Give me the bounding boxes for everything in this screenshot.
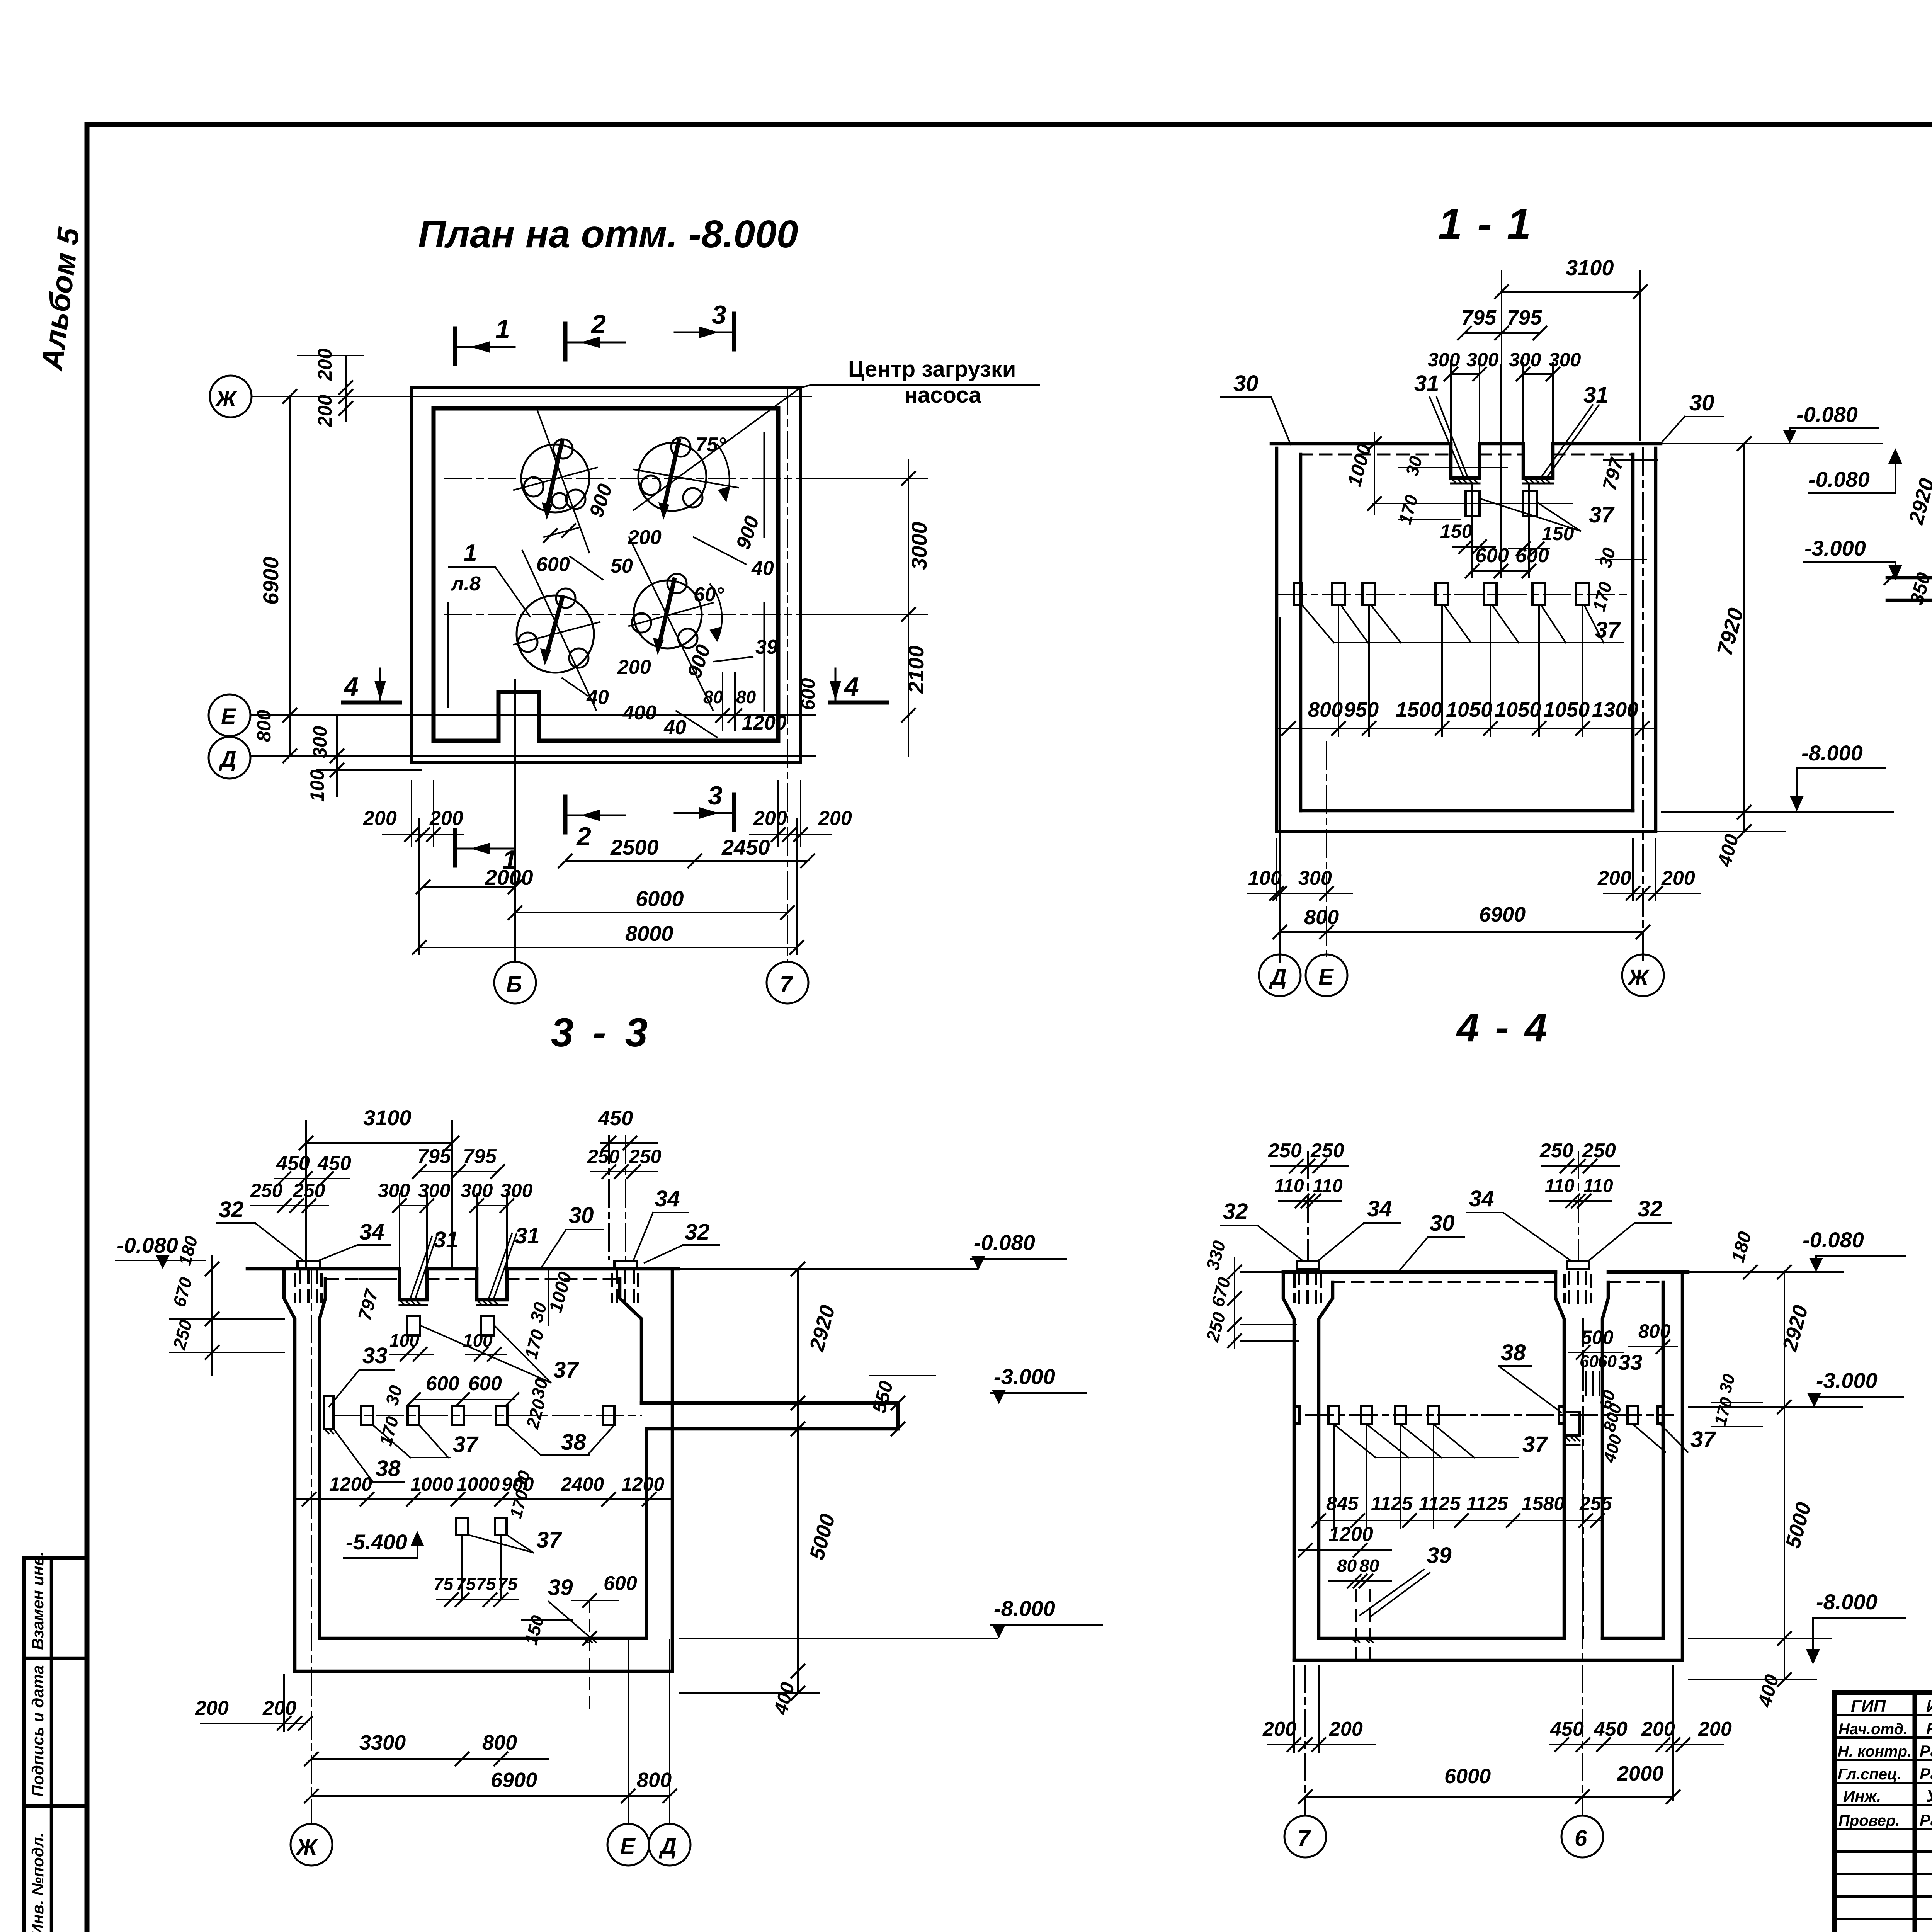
- section mark 1 bottom: [453, 830, 457, 866]
- svg-text:Н. контр.: Н. контр.: [1838, 1743, 1912, 1760]
- svg-text:1200: 1200: [329, 1473, 372, 1495]
- svg-text:75: 75: [476, 1574, 497, 1594]
- svg-text:39: 39: [548, 1575, 573, 1600]
- left dims 300 100: [336, 715, 338, 796]
- svg-text:400: 400: [769, 1680, 799, 1717]
- svg-text:34: 34: [1367, 1196, 1392, 1221]
- top-left dims 200 200: [345, 355, 347, 421]
- svg-text:-3.000: -3.000: [1804, 536, 1866, 560]
- slot leader funnels to 31: [1430, 397, 1464, 479]
- svg-text:200: 200: [314, 348, 336, 381]
- svg-text:7: 7: [1298, 1826, 1311, 1851]
- svg-text:800: 800: [637, 1769, 672, 1792]
- svg-text:Е: Е: [620, 1834, 636, 1859]
- svg-text:6900: 6900: [259, 556, 283, 605]
- svg-text:800: 800: [1638, 1320, 1671, 1342]
- pump cluster D big circle: [634, 580, 702, 648]
- centerline through row: [332, 1415, 641, 1416]
- svg-text:60°: 60°: [694, 583, 724, 606]
- svg-text:250: 250: [1539, 1139, 1573, 1162]
- svg-text:300: 300: [309, 726, 331, 758]
- pump D diagonal: [629, 537, 713, 710]
- svg-text:200: 200: [1597, 867, 1631, 889]
- section mark 3 bottom: [732, 794, 736, 830]
- svg-text:950: 950: [1344, 698, 1379, 721]
- axis circle Е: [607, 1824, 649, 1866]
- svg-text:30: 30: [1233, 371, 1259, 396]
- svg-text:1: 1: [464, 540, 477, 566]
- svg-text:150: 150: [1542, 523, 1574, 544]
- svg-text:4: 4: [343, 672, 359, 701]
- leaders from anchors to 37 line: [1302, 605, 1334, 643]
- 4-4 middle wall flared top: [1556, 1272, 1564, 1638]
- pump A dims: [544, 527, 580, 537]
- axis line Б vertical: [514, 680, 516, 962]
- svg-text:200: 200: [1262, 1718, 1296, 1740]
- svg-text:450: 450: [598, 1107, 633, 1130]
- left wall embedded plate: [324, 1396, 333, 1429]
- svg-text:38: 38: [1501, 1340, 1526, 1365]
- svg-text:39: 39: [1427, 1543, 1452, 1568]
- axis circle Е: [1306, 954, 1347, 996]
- svg-text:Гл.спец.: Гл.спец.: [1838, 1766, 1901, 1783]
- svg-text:-0.080: -0.080: [1803, 1228, 1864, 1252]
- svg-text:3300: 3300: [359, 1731, 406, 1754]
- svg-text:150: 150: [520, 1613, 548, 1647]
- svg-text:30: 30: [1595, 545, 1619, 570]
- svg-text:6900: 6900: [1479, 903, 1526, 926]
- svg-text:75°: 75°: [696, 434, 726, 456]
- top anchor plates: [1297, 1261, 1319, 1269]
- svg-text:л.8: л.8: [450, 573, 481, 595]
- wall inner detail lines: [447, 603, 449, 707]
- left dim 6900: [289, 396, 291, 756]
- svg-text:450: 450: [1594, 1718, 1628, 1740]
- svg-text:75: 75: [434, 1574, 454, 1594]
- svg-text:200: 200: [1698, 1718, 1732, 1740]
- svg-text:795: 795: [463, 1145, 497, 1168]
- bottom center anchor: [589, 1600, 590, 1712]
- svg-text:ГИП: ГИП: [1851, 1697, 1886, 1716]
- svg-text:3 - 3: 3 - 3: [551, 1010, 651, 1055]
- svg-text:План на отм. -8.000: План на отм. -8.000: [418, 213, 798, 256]
- slot leader lines 31: [410, 1236, 432, 1298]
- svg-text:200: 200: [1661, 867, 1695, 889]
- svg-text:1 - 1: 1 - 1: [1438, 200, 1532, 248]
- right vertical dim 7920: [1743, 444, 1745, 832]
- svg-text:300: 300: [1428, 349, 1460, 371]
- svg-text:-8.000: -8.000: [1801, 741, 1863, 765]
- svg-text:550: 550: [868, 1379, 898, 1415]
- svg-text:37: 37: [536, 1527, 562, 1553]
- svg-text:-0.080: -0.080: [117, 1233, 178, 1257]
- svg-text:400: 400: [622, 702, 656, 724]
- svg-text:1200: 1200: [1328, 1523, 1373, 1546]
- svg-text:30: 30: [1401, 454, 1426, 478]
- axis verticals: [311, 1271, 312, 1823]
- svg-text:Рашевский: Рашевский: [1920, 1811, 1932, 1829]
- svg-text:75: 75: [456, 1574, 476, 1594]
- svg-text:300: 300: [1298, 867, 1332, 889]
- svg-text:600: 600: [797, 678, 819, 710]
- axis circle 7: [1284, 1816, 1326, 1857]
- svg-text:-0.080: -0.080: [1808, 467, 1870, 492]
- svg-text:31: 31: [515, 1223, 540, 1248]
- plan outer wall: [412, 388, 801, 762]
- section 1-1 inner walls: [1299, 454, 1303, 811]
- svg-text:38: 38: [561, 1430, 586, 1455]
- axis verticals: [1279, 618, 1281, 962]
- pump A arrow: [547, 440, 562, 510]
- svg-text:Е: Е: [221, 704, 237, 729]
- floor anchor dashed bolts: [1356, 1590, 1370, 1660]
- svg-text:32: 32: [1223, 1199, 1248, 1224]
- axis circle 7 bottom: [767, 962, 808, 1003]
- svg-text:110: 110: [1313, 1176, 1343, 1196]
- svg-text:5000: 5000: [805, 1512, 840, 1563]
- svg-text:6900: 6900: [491, 1769, 537, 1792]
- pump B diagonal to corner: [634, 388, 801, 510]
- svg-text:450: 450: [317, 1152, 351, 1175]
- signature table verticals: [1913, 1692, 1917, 1932]
- section mark 2 top: [563, 324, 568, 359]
- svg-text:400: 400: [1713, 832, 1743, 869]
- svg-text:40: 40: [586, 686, 609, 709]
- svg-text:2450: 2450: [721, 835, 770, 859]
- svg-text:900: 900: [732, 513, 764, 552]
- axis circle Б bottom: [494, 962, 536, 1003]
- 4-4 left wall flared top: [1283, 1272, 1294, 1660]
- svg-text:250: 250: [629, 1146, 662, 1167]
- section mark 1 top: [453, 328, 457, 364]
- anchor row squares: [1294, 583, 1301, 605]
- 3-3 slot 2: [477, 1269, 507, 1300]
- svg-text:1580: 1580: [1522, 1493, 1565, 1514]
- 3-3 slab at -3.000 right: [641, 1401, 898, 1405]
- axis line Д: [250, 755, 815, 757]
- axis circle Ж: [291, 1824, 332, 1866]
- svg-text:37: 37: [453, 1432, 479, 1457]
- axis circle 6: [1561, 1816, 1603, 1857]
- svg-text:Подпись и дата: Подпись и дата: [29, 1665, 47, 1797]
- lower anchor plates: [456, 1518, 468, 1535]
- svg-text:2400: 2400: [561, 1473, 604, 1495]
- svg-text:150: 150: [1440, 520, 1473, 542]
- section 1-1 outer wall outline: [1277, 448, 1656, 832]
- svg-text:2100: 2100: [904, 645, 928, 694]
- svg-text:200: 200: [363, 807, 397, 830]
- signature table rows: [1835, 1714, 1932, 1716]
- svg-text:2000: 2000: [1617, 1762, 1663, 1785]
- svg-text:Центр загрузки: Центр загрузки: [848, 357, 1016, 382]
- svg-text:250: 250: [169, 1318, 196, 1352]
- svg-text:3000: 3000: [907, 522, 931, 570]
- svg-text:1300: 1300: [1592, 698, 1638, 721]
- svg-text:Ж: Ж: [214, 386, 238, 412]
- centerline through anchor row: [1279, 594, 1629, 595]
- svg-text:450: 450: [276, 1152, 310, 1175]
- svg-text:797: 797: [1599, 455, 1628, 493]
- section mark 3 top: [732, 314, 736, 349]
- svg-text:1050: 1050: [1543, 698, 1590, 721]
- svg-text:40: 40: [751, 557, 774, 580]
- svg-text:250: 250: [293, 1180, 325, 1201]
- svg-text:2000: 2000: [485, 865, 533, 889]
- centerline row2: [444, 614, 798, 615]
- svg-text:900: 900: [585, 481, 617, 520]
- axis circle Ж: [1622, 954, 1664, 996]
- svg-text:200: 200: [818, 807, 852, 830]
- svg-text:600: 600: [426, 1372, 459, 1395]
- svg-text:300: 300: [500, 1180, 533, 1201]
- top slab second line dashed: [1301, 454, 1451, 456]
- svg-text:300: 300: [1509, 349, 1541, 371]
- svg-text:7: 7: [780, 972, 793, 997]
- 3-3 right wall with flared top: [671, 1269, 674, 1671]
- svg-text:400: 400: [1753, 1672, 1783, 1709]
- dim 2000: [423, 886, 515, 888]
- svg-text:Нач.отд.: Нач.отд.: [1838, 1721, 1908, 1738]
- svg-text:1200: 1200: [742, 712, 787, 734]
- svg-text:110: 110: [1583, 1176, 1613, 1196]
- svg-text:1000: 1000: [410, 1473, 453, 1495]
- svg-text:38: 38: [376, 1456, 401, 1481]
- svg-text:30: 30: [381, 1383, 406, 1407]
- svg-text:32: 32: [685, 1219, 710, 1245]
- svg-text:1200: 1200: [621, 1473, 664, 1495]
- svg-text:2920: 2920: [1904, 476, 1932, 527]
- svg-text:300: 300: [418, 1180, 451, 1201]
- svg-text:1000: 1000: [457, 1473, 500, 1495]
- svg-text:34: 34: [655, 1186, 680, 1211]
- svg-text:Инж.: Инж.: [1843, 1787, 1881, 1805]
- svg-text:-5.400: -5.400: [346, 1530, 407, 1554]
- 3-3 slot 1: [400, 1269, 427, 1300]
- svg-text:3100: 3100: [363, 1105, 412, 1130]
- svg-text:Альбом 5: Альбом 5: [34, 225, 86, 372]
- svg-text:31: 31: [1414, 371, 1439, 396]
- axis line Е: [250, 714, 815, 716]
- svg-text:39: 39: [755, 636, 778, 658]
- axis circle Е: [209, 694, 250, 736]
- svg-text:-3.000: -3.000: [1816, 1368, 1878, 1393]
- svg-text:31: 31: [434, 1227, 459, 1252]
- svg-text:Ж: Ж: [295, 1835, 318, 1860]
- svg-text:Е: Е: [1318, 964, 1334, 990]
- svg-text:30: 30: [1430, 1211, 1455, 1236]
- svg-text:-8.000: -8.000: [1816, 1590, 1878, 1614]
- axis circle Д: [649, 1824, 690, 1866]
- dim 6000: [515, 912, 787, 913]
- svg-text:250: 250: [250, 1180, 283, 1201]
- svg-text:Иванова: Иванова: [1926, 1697, 1932, 1716]
- svg-text:600: 600: [468, 1372, 502, 1395]
- svg-text:8000: 8000: [625, 921, 673, 946]
- svg-text:670: 670: [169, 1275, 196, 1309]
- svg-text:37: 37: [1589, 502, 1615, 527]
- svg-text:1500: 1500: [1396, 698, 1442, 721]
- svg-text:Рашевский: Рашевский: [1920, 1742, 1932, 1760]
- svg-text:33: 33: [362, 1343, 388, 1368]
- 4-4 floor: [1319, 1637, 1564, 1640]
- svg-text:Д: Д: [1269, 964, 1287, 990]
- svg-text:60: 60: [1580, 1352, 1599, 1371]
- pump B 75 deg arc: [717, 444, 730, 498]
- svg-text:2: 2: [590, 310, 606, 339]
- svg-text:255: 255: [1579, 1493, 1612, 1514]
- axis circle Ж: [210, 376, 252, 417]
- svg-text:600: 600: [1515, 544, 1549, 567]
- svg-text:34: 34: [1469, 1186, 1494, 1211]
- axis line 7 vertical: [787, 388, 788, 962]
- svg-text:6000: 6000: [1444, 1765, 1491, 1788]
- svg-text:30: 30: [569, 1203, 594, 1228]
- svg-text:795: 795: [1461, 306, 1497, 329]
- svg-text:80: 80: [703, 687, 723, 707]
- axis line Ж: [252, 396, 811, 397]
- svg-text:845: 845: [1326, 1493, 1359, 1514]
- svg-text:Рыбкина: Рыбкина: [1926, 1719, 1932, 1738]
- 3-3 left wall with flared top: [284, 1269, 295, 1671]
- svg-text:800: 800: [482, 1731, 517, 1754]
- svg-text:Д: Д: [658, 1834, 677, 1859]
- pump C diagonal: [522, 551, 596, 710]
- svg-text:-0.080: -0.080: [1796, 402, 1858, 427]
- svg-text:5000: 5000: [1781, 1500, 1816, 1551]
- pump D arrow: [659, 580, 674, 646]
- dim 2500 2450: [565, 860, 808, 862]
- right chain 2920 5000 400: [797, 1269, 799, 1693]
- svg-text:170: 170: [1588, 580, 1616, 614]
- pump C arrow: [546, 598, 562, 657]
- svg-text:200: 200: [195, 1697, 229, 1719]
- svg-text:Провер.: Провер.: [1838, 1812, 1900, 1829]
- svg-text:200: 200: [753, 807, 787, 830]
- svg-text:170: 170: [1711, 1395, 1736, 1427]
- svg-text:4: 4: [844, 672, 859, 701]
- svg-text:600: 600: [1475, 544, 1509, 567]
- svg-text:200: 200: [617, 656, 651, 679]
- svg-text:2500: 2500: [610, 835, 659, 859]
- svg-text:37: 37: [1690, 1427, 1716, 1452]
- 4-4 right wall: [1681, 1272, 1684, 1660]
- anchor plate below slot2: [1523, 491, 1537, 516]
- middle anchor squares row: [1328, 1406, 1339, 1424]
- axis circle Д: [209, 737, 250, 779]
- svg-text:Взамен инв.: Взамен инв.: [29, 1551, 47, 1650]
- svg-text:1125: 1125: [1466, 1493, 1509, 1514]
- svg-text:200: 200: [314, 395, 336, 427]
- svg-text:-3.000: -3.000: [994, 1364, 1055, 1389]
- svg-text:80: 80: [1359, 1556, 1379, 1576]
- svg-text:250: 250: [1268, 1139, 1302, 1162]
- svg-text:200: 200: [1329, 1718, 1363, 1740]
- leaders from plates to 37: [1480, 498, 1580, 531]
- svg-text:800: 800: [1308, 698, 1343, 721]
- 3-3 floor: [320, 1637, 646, 1640]
- 2-2 slab at -3.000 left: [1887, 576, 1932, 580]
- svg-text:1050: 1050: [1446, 698, 1492, 721]
- svg-text:50: 50: [611, 555, 633, 577]
- svg-text:110: 110: [1274, 1176, 1304, 1196]
- axis circle Д: [1259, 954, 1301, 996]
- pump cluster A big circle: [521, 444, 589, 512]
- svg-text:Удалова: Удалова: [1926, 1787, 1932, 1806]
- svg-text:-0.080: -0.080: [974, 1230, 1035, 1255]
- svg-text:60: 60: [1598, 1352, 1617, 1371]
- svg-text:37: 37: [553, 1357, 579, 1383]
- pump cluster B big circle: [638, 443, 706, 511]
- svg-text:180: 180: [174, 1234, 201, 1268]
- svg-text:330: 330: [1202, 1238, 1229, 1272]
- pump cluster C big circle: [517, 595, 594, 673]
- svg-text:795: 795: [1507, 306, 1542, 329]
- svg-text:4 - 4: 4 - 4: [1456, 1005, 1549, 1050]
- svg-text:80: 80: [1337, 1556, 1357, 1576]
- section 1-1 floor: [1301, 809, 1633, 813]
- axis verticals: [1304, 1665, 1306, 1815]
- vertical guide lines from anchors to dim row: [1338, 605, 1339, 736]
- svg-text:600: 600: [536, 553, 570, 576]
- svg-text:30: 30: [1716, 1372, 1739, 1395]
- svg-text:3100: 3100: [1566, 255, 1614, 280]
- svg-text:200: 200: [429, 807, 463, 830]
- 4-4 top slab line: [1283, 1270, 1556, 1274]
- right chain 2920 5000 400: [1784, 1272, 1785, 1680]
- svg-text:-8.000: -8.000: [994, 1596, 1055, 1621]
- svg-text:Б: Б: [506, 972, 522, 997]
- svg-text:6000: 6000: [636, 886, 684, 911]
- svg-text:30: 30: [1689, 390, 1714, 415]
- svg-text:250: 250: [1582, 1139, 1616, 1162]
- anchor plates below slots: [407, 1316, 420, 1335]
- svg-text:33: 33: [1618, 1350, 1642, 1374]
- 3-3 top slab line: [247, 1267, 400, 1271]
- centerline through plates: [1372, 503, 1572, 504]
- section mark 2 bottom: [563, 797, 568, 832]
- pump slot 2: [1523, 444, 1553, 478]
- wall face plates: [1294, 1406, 1299, 1423]
- centerline row1: [444, 478, 798, 479]
- svg-text:31: 31: [1583, 383, 1609, 408]
- right dim chain 3000 2100: [908, 460, 909, 756]
- svg-text:1050: 1050: [1495, 698, 1541, 721]
- svg-text:3: 3: [708, 781, 723, 810]
- pump A diagonal: [537, 410, 589, 553]
- svg-text:32: 32: [1638, 1196, 1663, 1221]
- svg-text:250: 250: [587, 1146, 620, 1167]
- svg-text:2920: 2920: [1778, 1303, 1812, 1354]
- svg-text:1125: 1125: [1371, 1493, 1413, 1514]
- svg-text:500: 500: [1581, 1327, 1614, 1348]
- svg-text:2920: 2920: [805, 1303, 839, 1354]
- top anchor plates: [298, 1261, 320, 1269]
- pump D 60 deg arc: [710, 584, 722, 638]
- svg-text:37: 37: [1595, 617, 1621, 643]
- svg-text:насоса: насоса: [904, 383, 981, 408]
- svg-text:170: 170: [1395, 493, 1422, 527]
- svg-text:Д: Д: [218, 747, 236, 772]
- svg-text:250: 250: [1202, 1310, 1229, 1344]
- svg-text:32: 32: [219, 1197, 244, 1222]
- svg-text:37: 37: [1522, 1432, 1548, 1457]
- svg-text:40: 40: [663, 716, 686, 739]
- middle anchor squares row: [361, 1406, 373, 1425]
- svg-text:2: 2: [576, 822, 591, 851]
- svg-text:800: 800: [253, 709, 275, 742]
- svg-text:34: 34: [359, 1219, 384, 1245]
- svg-text:Рашевский: Рашевский: [1920, 1765, 1932, 1783]
